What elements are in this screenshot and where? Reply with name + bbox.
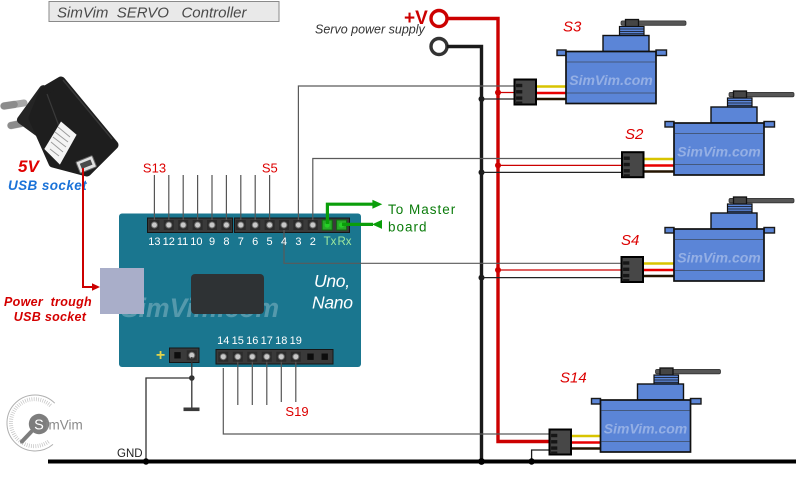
svg-text:4: 4 bbox=[281, 236, 287, 248]
junction dot GND bus bbox=[143, 458, 149, 464]
servo S14 wires bbox=[571, 436, 602, 449]
svg-text:imVim: imVim bbox=[46, 418, 83, 433]
junction dot black bus S2 bbox=[479, 169, 485, 175]
wire red bus to S2 connector bbox=[498, 164, 622, 166]
wire pin 14 to servo S14 connector bbox=[223, 368, 549, 434]
svg-text:8: 8 bbox=[223, 236, 229, 248]
pin 6 bbox=[250, 220, 260, 230]
svg-text:SimVim SERVO Controller: SimVim SERVO Controller bbox=[57, 5, 248, 22]
pin 16 bbox=[247, 352, 257, 362]
pin 9 bbox=[207, 220, 217, 230]
junction dot black bus S4 bbox=[479, 275, 485, 281]
pin 17 bbox=[262, 352, 272, 362]
svg-text:board: board bbox=[388, 220, 428, 235]
pin 14 bbox=[218, 352, 228, 362]
green arrow Tx to master bbox=[327, 200, 382, 224]
servo S2 bbox=[665, 91, 794, 175]
servo S3 bbox=[557, 20, 686, 104]
bottom power header bbox=[170, 348, 200, 363]
svg-text:3: 3 bbox=[295, 236, 301, 248]
pin Rx bbox=[337, 220, 347, 230]
svg-text:Servo power supply: Servo power supply bbox=[315, 23, 426, 37]
ground symbol bbox=[184, 408, 200, 412]
svg-text:Power trough: Power trough bbox=[4, 295, 92, 309]
wire red bus to S3 connector bbox=[498, 92, 515, 94]
svg-text:S3: S3 bbox=[563, 19, 582, 36]
svg-text:GND: GND bbox=[117, 448, 143, 460]
junction dot red bus S3 bbox=[495, 90, 501, 96]
svg-text:Tx: Tx bbox=[324, 236, 337, 248]
svg-text:12: 12 bbox=[163, 236, 175, 248]
connector S4 bbox=[622, 257, 644, 282]
GND bus line bbox=[48, 460, 796, 464]
pin GND bbox=[187, 350, 197, 360]
junction dot bbox=[189, 375, 195, 381]
USB connector on board bbox=[100, 268, 144, 314]
wire red bus to S4 connector bbox=[498, 269, 622, 271]
svg-text:USB socket: USB socket bbox=[14, 310, 87, 324]
stub wires above pins 13-5 bbox=[154, 175, 269, 223]
svg-text:S2: S2 bbox=[625, 126, 644, 143]
svg-text:S5: S5 bbox=[262, 161, 278, 176]
svg-text:5V: 5V bbox=[18, 157, 40, 176]
svg-text:19: 19 bbox=[290, 335, 302, 347]
unused pin socket bbox=[305, 351, 316, 362]
connector S3 bbox=[515, 80, 537, 105]
svg-text:7: 7 bbox=[238, 236, 244, 248]
USB power adapter bbox=[4, 80, 114, 173]
svg-text:13: 13 bbox=[148, 236, 160, 248]
svg-text:Nano: Nano bbox=[312, 293, 353, 313]
svg-text:17: 17 bbox=[261, 335, 273, 347]
pin 7 bbox=[236, 220, 246, 230]
junction dot red bus S4 bbox=[495, 267, 501, 273]
wire black bus to S2 connector bbox=[482, 171, 623, 173]
wire S14 connector to GND bus bbox=[532, 450, 550, 462]
wire GND pin to ground bbox=[191, 357, 193, 408]
chip U1 bbox=[191, 274, 264, 314]
svg-text:16: 16 bbox=[246, 335, 258, 347]
pin 15 bbox=[233, 352, 243, 362]
pin square bbox=[172, 350, 183, 361]
pin 18 bbox=[276, 352, 286, 362]
bottom pin header 14-19 bbox=[216, 350, 333, 365]
svg-text:2: 2 bbox=[310, 236, 316, 248]
pin 5 bbox=[265, 220, 275, 230]
wire pin 4 to servo S4 connector bbox=[284, 225, 622, 263]
svg-text:S14: S14 bbox=[560, 370, 587, 387]
green arrow Rx from master bbox=[342, 220, 382, 229]
wire black bus to S3 connector bbox=[482, 98, 515, 100]
servo S14 bbox=[592, 368, 721, 452]
svg-text:15: 15 bbox=[232, 335, 244, 347]
svg-text:Rx: Rx bbox=[337, 236, 351, 248]
title box bbox=[49, 2, 279, 22]
wire pin 3 to servo S3 connector bbox=[298, 86, 514, 223]
unused pin socket bbox=[319, 351, 330, 362]
pin 12 bbox=[164, 220, 174, 230]
svg-text:6: 6 bbox=[252, 236, 258, 248]
pin 3 bbox=[293, 220, 303, 230]
terminal +V bbox=[431, 11, 447, 27]
wire pin 2 to servo S2 connector bbox=[313, 159, 622, 224]
servo S4 wires bbox=[643, 264, 675, 277]
pin 8 bbox=[221, 220, 231, 230]
svg-text:S4: S4 bbox=[621, 232, 639, 249]
Arduino board bbox=[119, 214, 361, 368]
pin 2 bbox=[308, 220, 318, 230]
connector S14 bbox=[550, 430, 572, 455]
svg-text:5: 5 bbox=[267, 236, 273, 248]
servo S2 wires bbox=[643, 159, 674, 172]
connector S2 bbox=[622, 152, 644, 177]
junction dot black bus S3 bbox=[479, 96, 485, 102]
bottom pin labels bbox=[217, 335, 302, 347]
svg-text:10: 10 bbox=[190, 236, 202, 248]
svg-text:Uno,: Uno, bbox=[314, 271, 350, 291]
pin 10 bbox=[193, 220, 203, 230]
stub wires below pins 15-19 bbox=[238, 358, 296, 405]
svg-text:18: 18 bbox=[275, 335, 287, 347]
junction dot red bus S2 bbox=[495, 162, 501, 168]
svg-text:USB socket: USB socket bbox=[8, 178, 87, 193]
top pin labels bbox=[148, 236, 316, 248]
wire adapter to USB socket bbox=[83, 168, 93, 287]
pin 11 bbox=[178, 220, 188, 230]
top pin header strip 1 bbox=[148, 218, 233, 233]
svg-text:14: 14 bbox=[217, 335, 229, 347]
black GND bus bbox=[447, 47, 482, 462]
svg-text:+: + bbox=[156, 347, 165, 364]
terminal GND bbox=[431, 39, 447, 55]
svg-text:S13: S13 bbox=[143, 161, 166, 176]
red +V bus bbox=[447, 19, 549, 442]
junction dot black bus GND bbox=[478, 458, 485, 465]
pin 13 bbox=[149, 220, 159, 230]
svg-text:9: 9 bbox=[209, 236, 215, 248]
SimVim logo bbox=[7, 395, 83, 451]
svg-text:To Master: To Master bbox=[388, 202, 456, 217]
wire black bus to S4 connector bbox=[482, 277, 622, 279]
pin 4 bbox=[279, 220, 289, 230]
servo S3 wires bbox=[535, 87, 566, 100]
junction dot S14 GND bbox=[528, 458, 534, 464]
svg-text:11: 11 bbox=[177, 236, 188, 248]
servo S4 bbox=[665, 197, 794, 281]
pin 19 bbox=[291, 352, 301, 362]
svg-text:S: S bbox=[34, 418, 44, 434]
top pin header strip 2 bbox=[235, 218, 350, 233]
pin Tx bbox=[322, 220, 332, 230]
svg-text:S19: S19 bbox=[285, 404, 308, 419]
